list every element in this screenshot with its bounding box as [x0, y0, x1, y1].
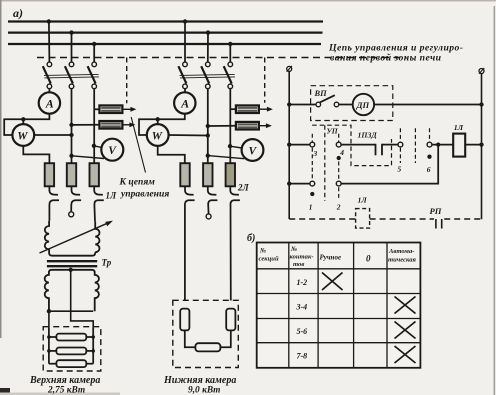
node W2 top	[156, 117, 160, 121]
arrow to control wiring 2	[122, 124, 130, 126]
X mark row1	[322, 273, 343, 291]
shunt box R2b	[236, 122, 259, 130]
wire A1 to W1 elbow	[4, 114, 49, 135]
dashed control rail	[37, 57, 407, 59]
wire phase5 down	[207, 89, 209, 164]
svg-text:1Л: 1Л	[358, 196, 368, 205]
bus line L2	[8, 31, 323, 33]
svg-text:ВП: ВП	[314, 89, 328, 98]
lower chamber dashed enclosure	[173, 300, 239, 367]
wire contact6 to coil 1Л	[432, 144, 453, 146]
switch QS2 linkage	[180, 74, 235, 75]
node rail-right row1	[479, 142, 483, 146]
wire tap to shunt3	[230, 108, 236, 110]
disconnect switch QS2 pole3	[224, 62, 233, 89]
dashed drop to arrows branch1	[126, 58, 128, 104]
X mark row4	[395, 346, 416, 363]
node L3 tap branch1	[92, 42, 96, 46]
wire phase1 to ammeter	[48, 89, 50, 93]
svg-text:вания первой зоны печи: вания первой зоны печи	[330, 52, 442, 63]
УП contact 4	[336, 142, 341, 147]
wire phase2 down	[71, 89, 73, 164]
current coil R phase5	[203, 163, 212, 186]
arrow to control wiring 3	[259, 108, 268, 110]
УП linkage dashed right	[414, 128, 416, 163]
wire A2 to W2 elbow	[139, 114, 185, 135]
ammeter A1	[39, 92, 60, 113]
variable arrow through Тр	[40, 223, 108, 253]
svg-text:9,0 кВт: 9,0 кВт	[188, 386, 220, 395]
contact 1ПЗД	[375, 144, 377, 156]
svg-text:УП: УП	[327, 127, 339, 136]
УП contact 2	[336, 181, 341, 186]
node W1 top	[21, 117, 25, 121]
svg-text:тическая: тическая	[388, 257, 416, 264]
УП dashed frame	[312, 125, 391, 165]
current coil R phase4	[180, 163, 189, 186]
УП contact 5	[398, 142, 403, 147]
node L2 tap branch1	[69, 30, 73, 34]
wire drop phase3	[93, 44, 95, 62]
arrow to control wiring 1	[122, 108, 131, 110]
wire row2 left	[289, 183, 310, 185]
dashed box around ВП ДП	[311, 86, 393, 121]
svg-text:Нижняя камера: Нижняя камера	[163, 375, 236, 386]
shunt box R1b	[99, 121, 122, 129]
node feedback junction	[436, 142, 440, 146]
wire secondary left output down	[48, 311, 50, 328]
bottom dashed wire left	[289, 218, 355, 220]
right rail	[481, 74, 483, 220]
wire W1 bottom to R1	[23, 146, 49, 163]
bottom dashed wire mid	[370, 218, 434, 220]
wire row2 to feedback	[341, 145, 438, 184]
upper chamber left bus	[48, 328, 50, 364]
УП contact 3	[310, 142, 315, 147]
wire V2 tap lower	[208, 156, 245, 159]
wire drop phase4	[184, 22, 186, 63]
wire ДП to right rail	[374, 104, 481, 106]
wire V1 tap lower	[72, 156, 105, 159]
node L1 tap branch1	[47, 19, 51, 23]
wire W1 top stub	[22, 119, 24, 124]
wire tap to shunt1	[94, 108, 99, 110]
node L3 tap branch2	[228, 42, 232, 46]
svg-text:а): а)	[13, 6, 23, 20]
upper chamber right bus	[92, 328, 94, 364]
node phase2 shunt tap	[69, 123, 73, 127]
svg-text:1ПЗД: 1ПЗД	[358, 131, 378, 140]
svg-text:Ручное: Ручное	[320, 254, 342, 262]
node heater left 1	[47, 335, 51, 339]
svg-text:№: №	[290, 246, 297, 253]
svg-text:7-8: 7-8	[297, 352, 308, 361]
wattmeter W1	[12, 124, 34, 146]
leader line to caption	[131, 117, 145, 173]
svg-text:2: 2	[336, 203, 341, 212]
svg-text:5-6: 5-6	[297, 327, 308, 336]
svg-text:1Л: 1Л	[454, 123, 464, 132]
terminal right (crossed circle)	[479, 69, 484, 74]
transformer core	[47, 260, 97, 262]
wire drop phase2	[71, 33, 73, 63]
УП linkage dashed center	[324, 125, 326, 201]
bottom dashed wire right	[444, 218, 481, 220]
contact РП	[435, 219, 437, 229]
svg-text:W: W	[17, 130, 28, 142]
node secondary bottom-left	[47, 309, 51, 313]
svg-text:2,75 кВт: 2,75 кВт	[47, 386, 85, 395]
node heater right 1	[91, 335, 95, 339]
УП contact 6	[427, 142, 432, 147]
node phase3 V tap	[92, 144, 96, 148]
node rail-left row2	[287, 181, 291, 185]
svg-text:1Л: 1Л	[106, 191, 118, 201]
svg-text:Верхняя камера: Верхняя камера	[29, 375, 100, 386]
current coil R phase2	[67, 163, 76, 186]
wire ВП to ДП	[339, 104, 353, 106]
disconnect switch QS2 pole2	[201, 62, 210, 89]
X mark row3	[395, 322, 416, 339]
transformer Тр primary winding	[45, 221, 100, 256]
shunt box R2a	[236, 105, 259, 113]
upper chamber dashed enclosure	[43, 327, 101, 371]
phase2 open terminal	[69, 212, 74, 217]
svg-text:3: 3	[313, 149, 318, 158]
svg-text:6: 6	[427, 165, 431, 174]
motor ДП	[353, 94, 374, 115]
disconnect switch QS1 pole2	[65, 62, 74, 89]
wire element5 to element6	[220, 330, 230, 347]
ammeter A2	[174, 92, 195, 113]
node heater right 2	[91, 349, 95, 353]
svg-text:2Л: 2Л	[237, 183, 250, 193]
contactor 2Л pole1	[185, 186, 195, 300]
wire drop phase5	[207, 33, 209, 63]
node phase5 V tap	[206, 153, 210, 157]
contact 1Л (dashed box)	[356, 209, 370, 229]
svg-text:РП: РП	[430, 206, 442, 216]
svg-text:3-4: 3-4	[296, 303, 308, 312]
phase5 open terminal	[206, 214, 211, 219]
contactor 1Л pole1	[49, 186, 59, 221]
voltmeter V1	[101, 139, 123, 161]
wire element4 to element6	[185, 330, 196, 347]
current coil R phase6	[226, 163, 235, 186]
wire drop phase1	[48, 22, 51, 63]
svg-text:К цепям: К цепям	[119, 177, 156, 188]
svg-text:№: №	[259, 248, 266, 255]
heater element 4	[180, 309, 189, 331]
wire W2 voltage tap to phase5	[169, 134, 208, 137]
svg-text:5: 5	[398, 165, 402, 174]
wire phase4 to ammeter	[184, 89, 186, 93]
wire row0 left	[289, 104, 316, 106]
wire tap to shunt2	[72, 124, 100, 126]
wire drop phase6	[229, 44, 231, 62]
node L1 tap branch2	[183, 19, 187, 23]
secondary bottom link	[48, 310, 93, 312]
svg-text:секций: секций	[259, 256, 279, 263]
contactor 1Л pole2	[71, 186, 81, 211]
svg-text:4: 4	[339, 148, 344, 157]
node phase5 shunt tap	[206, 124, 210, 128]
switch ВП	[316, 102, 321, 107]
wire V1 tap upper	[94, 146, 102, 148]
contactor 2Л pole3	[230, 186, 240, 300]
svg-text:1-2: 1-2	[297, 278, 308, 287]
node phase2 V tap	[69, 154, 73, 158]
wire V2 tap upper	[230, 146, 242, 148]
node rail-left row1	[287, 142, 291, 146]
contactor 1Л pole3	[94, 186, 104, 221]
wire W2 bottom to R4	[158, 146, 185, 163]
dashed drop to arrows branch2	[264, 58, 266, 103]
switch QS1 linkage	[44, 74, 99, 75]
svg-text:А: А	[45, 96, 54, 110]
disconnect switch QS1 pole3	[88, 62, 97, 89]
svg-text:б): б)	[247, 233, 255, 244]
shunt box R1a	[99, 105, 122, 113]
wire tap to shunt4	[208, 125, 236, 127]
wire coil to right rail	[465, 144, 481, 146]
wire row1 left	[289, 144, 310, 146]
svg-text:ДП: ДП	[356, 100, 370, 110]
svg-text:1: 1	[309, 203, 313, 212]
wire W1 voltage tap to phase2	[34, 134, 71, 136]
node phase6 V tap	[228, 144, 232, 148]
table column lines	[288, 243, 290, 368]
svg-text:контак-: контак-	[290, 254, 314, 261]
X mark row2	[395, 297, 416, 314]
svg-text:управления: управления	[120, 189, 169, 200]
svg-text:тов: тов	[293, 261, 304, 268]
coil 1Л	[453, 134, 465, 157]
node rail-left row0	[287, 102, 291, 106]
table frame	[257, 243, 421, 368]
wire W2 top stub	[157, 119, 159, 124]
svg-text:V: V	[108, 145, 117, 157]
heater element 6	[195, 343, 220, 351]
scan edge right	[494, 6, 496, 395]
wire secondary center tap down	[71, 270, 94, 328]
left rail	[288, 71, 290, 219]
scan edge left	[0, 0, 2, 338]
node phase5 W tap	[206, 133, 210, 137]
contactor 2Л pole2	[208, 186, 218, 214]
current coil R phase1	[45, 163, 54, 186]
table row lines	[257, 268, 421, 270]
heater element 2	[49, 350, 57, 352]
current coil R phase3	[90, 163, 99, 186]
svg-text:W: W	[152, 130, 163, 142]
svg-text:0: 0	[366, 254, 371, 264]
disconnect switch QS2 pole1	[178, 62, 187, 89]
svg-text:Тр: Тр	[102, 258, 112, 268]
bus line L3	[8, 43, 321, 45]
arrow to control wiring 4	[259, 125, 267, 127]
heater element 1	[49, 336, 57, 338]
disconnect switch QS1 pole1	[43, 62, 52, 89]
УП contact 1	[310, 181, 315, 186]
node phase2 W tap	[69, 133, 73, 137]
heater element 5	[226, 309, 235, 331]
wire phase6 down	[229, 89, 231, 164]
node heater left 2	[47, 349, 51, 353]
transformer Тр secondary winding	[45, 270, 99, 311]
scan edge top	[0, 0, 496, 1]
terminal left (crossed circle)	[287, 66, 292, 71]
wattmeter W2	[147, 124, 169, 146]
svg-text:А: А	[180, 96, 189, 110]
heater element 3	[49, 363, 57, 365]
bus line L1	[8, 20, 323, 22]
node rail-right row0	[479, 102, 483, 106]
wire phase3 down	[93, 89, 95, 164]
scan mark bottom-left	[0, 388, 10, 395]
svg-text:V: V	[249, 145, 258, 157]
voltmeter V2	[242, 139, 264, 161]
node L2 tap branch2	[206, 30, 210, 34]
node secondary top-center	[69, 268, 73, 272]
wire contact4 to 1ПЗД	[341, 144, 375, 146]
svg-text:Автома-: Автома-	[388, 248, 414, 255]
